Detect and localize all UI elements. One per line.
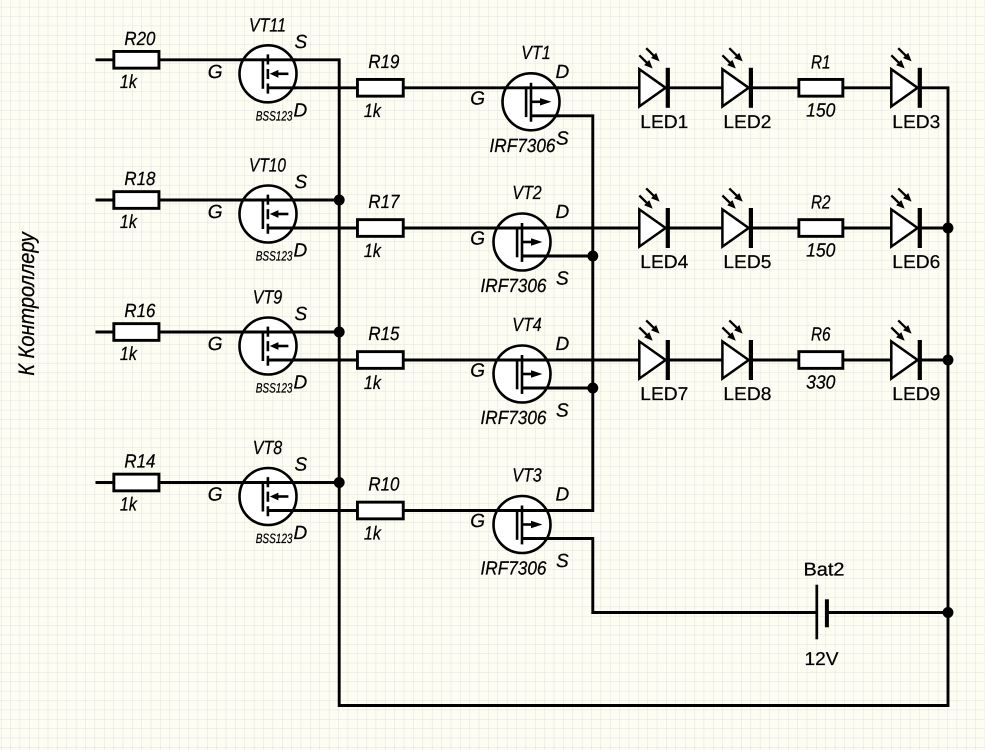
- LED LED2: [722, 48, 771, 132]
- svg-text:S: S: [295, 455, 308, 476]
- junction node (948,360): [943, 355, 954, 366]
- svg-text:LED1: LED1: [640, 111, 688, 132]
- svg-text:R14: R14: [124, 452, 155, 473]
- svg-text:12V: 12V: [805, 648, 840, 669]
- svg-text:S: S: [556, 401, 569, 422]
- LED LED5: [722, 188, 771, 272]
- junction node (593,388): [587, 383, 598, 394]
- junction node (948,612): [943, 607, 954, 618]
- wire VT4 source stub: [522, 387, 593, 390]
- svg-text:VT10: VT10: [249, 156, 286, 177]
- svg-text:D: D: [556, 202, 570, 223]
- svg-text:R1: R1: [811, 52, 831, 73]
- svg-text:VT1: VT1: [521, 43, 551, 64]
- LED LED7: [639, 320, 688, 404]
- svg-text:LED5: LED5: [723, 251, 771, 272]
- svg-text:VT9: VT9: [253, 288, 283, 309]
- LED LED9: [891, 320, 940, 404]
- svg-text:S: S: [295, 172, 308, 193]
- resistor R1 (150): [799, 52, 843, 121]
- wire row2 gate run: [96, 199, 340, 202]
- svg-text:330: 330: [806, 373, 836, 394]
- svg-text:VT4: VT4: [512, 315, 542, 336]
- svg-text:G: G: [470, 229, 485, 250]
- svg-text:BSS123: BSS123: [256, 381, 293, 396]
- svg-text:IRF7306: IRF7306: [481, 408, 547, 429]
- junction node (948,228): [943, 223, 954, 234]
- svg-text:1k: 1k: [364, 101, 382, 122]
- resistor R17 (1k): [357, 192, 403, 262]
- wire VT1 source, middle rail, row4 drain run: [268, 116, 593, 511]
- svg-text:G: G: [470, 88, 485, 109]
- resistor R15 (1k): [357, 324, 403, 394]
- svg-text:S: S: [556, 269, 569, 290]
- wire row3 gate run: [96, 331, 340, 334]
- svg-text:D: D: [294, 241, 308, 262]
- svg-text:VT8: VT8: [253, 438, 283, 459]
- svg-text:R16: R16: [124, 301, 155, 322]
- svg-text:К Контроллеру: К Контроллеру: [14, 231, 39, 376]
- svg-text:R17: R17: [368, 192, 400, 213]
- svg-text:LED3: LED3: [892, 111, 940, 132]
- svg-text:S: S: [295, 304, 308, 325]
- svg-text:R2: R2: [811, 193, 831, 214]
- wire row4 gate run: [96, 481, 340, 484]
- LED LED8: [722, 320, 771, 404]
- junction node (339,200): [334, 195, 345, 206]
- svg-text:LED6: LED6: [892, 251, 940, 272]
- svg-text:LED2: LED2: [723, 111, 771, 132]
- svg-text:Bat2: Bat2: [804, 559, 845, 580]
- battery Bat2 12V: [804, 559, 845, 670]
- svg-text:1k: 1k: [120, 344, 138, 365]
- svg-text:BSS123: BSS123: [256, 249, 293, 264]
- svg-text:1k: 1k: [120, 72, 138, 93]
- svg-text:R20: R20: [124, 29, 155, 50]
- svg-text:G: G: [208, 485, 223, 506]
- LED LED1: [639, 48, 688, 132]
- svg-text:G: G: [208, 62, 223, 83]
- svg-text:S: S: [556, 551, 569, 572]
- wire row3 drain-LED run: [268, 359, 948, 362]
- svg-text:VT3: VT3: [512, 466, 542, 487]
- svg-text:LED9: LED9: [892, 383, 940, 404]
- transistor VT10 (BSS123 N-MOSFET): [208, 156, 308, 264]
- resistor R6 (330): [799, 325, 843, 394]
- transistor VT11 (BSS123 N-MOSFET): [208, 15, 308, 123]
- transistor VT8 (BSS123 N-MOSFET): [208, 438, 308, 546]
- resistor R14 (1k): [114, 452, 159, 516]
- svg-text:1k: 1k: [364, 524, 382, 545]
- junction node (593,256): [587, 251, 598, 262]
- junction node (339,332): [334, 327, 345, 338]
- svg-text:1k: 1k: [120, 212, 138, 233]
- svg-text:1k: 1k: [364, 241, 382, 262]
- svg-text:1k: 1k: [364, 373, 382, 394]
- svg-text:LED8: LED8: [723, 383, 771, 404]
- svg-text:LED4: LED4: [640, 251, 688, 272]
- resistor R2 (150): [799, 193, 843, 262]
- wire battery to right rail: [827, 611, 948, 614]
- wire row1 drain run, right rail, bottom bus, left rail, row1 gate run: [96, 60, 949, 706]
- svg-text:R6: R6: [811, 325, 831, 346]
- resistor R20 (1k): [114, 29, 159, 93]
- svg-text:D: D: [556, 485, 570, 506]
- svg-text:VT11: VT11: [249, 15, 286, 36]
- junction node (339,482): [334, 477, 345, 488]
- resistor R19 (1k): [357, 52, 403, 122]
- resistor R16 (1k): [114, 301, 159, 365]
- svg-text:R10: R10: [368, 475, 399, 496]
- svg-text:S: S: [556, 128, 569, 149]
- svg-text:1k: 1k: [120, 495, 138, 516]
- resistor R18 (1k): [114, 169, 159, 233]
- svg-text:IRF7306: IRF7306: [481, 559, 547, 580]
- LED LED4: [639, 188, 688, 272]
- transistor VT9 (BSS123 N-MOSFET): [208, 288, 308, 396]
- svg-text:IRF7306: IRF7306: [481, 276, 547, 297]
- svg-text:R15: R15: [368, 324, 399, 345]
- wire VT2 source stub: [522, 255, 593, 258]
- transistor VT2 (IRF7306 P-MOSFET): [470, 183, 569, 297]
- LED LED3: [891, 48, 940, 132]
- svg-text:G: G: [208, 202, 223, 223]
- LED LED6: [891, 188, 940, 272]
- wire row2 drain-LED run: [268, 227, 948, 230]
- svg-text:150: 150: [806, 241, 836, 262]
- svg-text:IRF7306: IRF7306: [490, 136, 556, 157]
- svg-text:D: D: [556, 62, 570, 83]
- svg-text:R18: R18: [124, 169, 155, 190]
- svg-text:BSS123: BSS123: [256, 531, 293, 546]
- svg-text:D: D: [294, 373, 308, 394]
- svg-text:D: D: [556, 334, 570, 355]
- svg-text:D: D: [294, 523, 308, 544]
- svg-text:G: G: [470, 511, 485, 532]
- svg-text:G: G: [470, 361, 485, 382]
- transistor VT1 (IRF7306 P-MOSFET): [470, 43, 569, 157]
- svg-text:VT2: VT2: [512, 183, 542, 204]
- svg-text:BSS123: BSS123: [256, 108, 293, 123]
- svg-text:G: G: [208, 334, 223, 355]
- svg-text:S: S: [295, 32, 308, 53]
- svg-text:LED7: LED7: [640, 383, 688, 404]
- transistor VT4 (IRF7306 P-MOSFET): [470, 315, 569, 429]
- svg-text:R19: R19: [368, 52, 399, 73]
- svg-text:150: 150: [806, 100, 836, 121]
- transistor VT3 (IRF7306 P-MOSFET): [470, 466, 569, 580]
- wire VT3 source to battery: [522, 539, 817, 613]
- resistor R10 (1k): [357, 475, 403, 545]
- svg-text:D: D: [294, 100, 308, 121]
